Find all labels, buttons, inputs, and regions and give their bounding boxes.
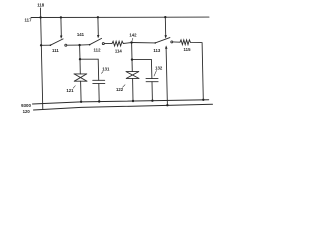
svg-text:115: 115 xyxy=(184,47,192,52)
svg-text:132: 132 xyxy=(155,65,163,70)
svg-text:118: 118 xyxy=(37,3,45,8)
svg-text:112: 112 xyxy=(94,48,102,53)
svg-text:113: 113 xyxy=(153,48,161,53)
svg-text:114: 114 xyxy=(115,49,123,54)
svg-text:120: 120 xyxy=(23,109,31,114)
svg-text:141: 141 xyxy=(77,32,85,37)
svg-text:117: 117 xyxy=(25,18,33,23)
svg-text:111: 111 xyxy=(52,48,59,53)
svg-text:9300: 9300 xyxy=(21,103,31,108)
svg-text:142: 142 xyxy=(129,32,137,37)
svg-text:122: 122 xyxy=(116,87,124,92)
svg-text:131: 131 xyxy=(102,67,110,72)
svg-text:121: 121 xyxy=(66,88,74,93)
